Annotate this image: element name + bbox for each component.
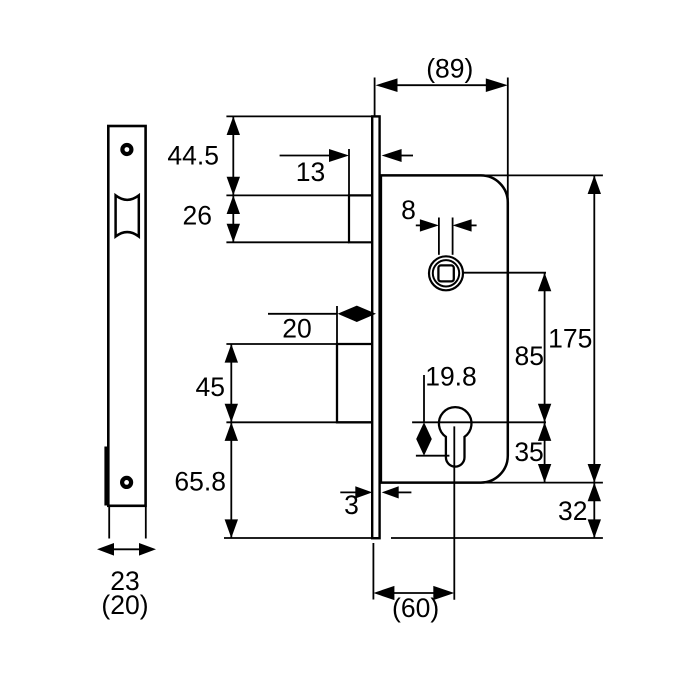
svg-text:44.5: 44.5 [167, 141, 219, 171]
dimension 8 arrows [416, 224, 421, 226]
screw hole top [122, 145, 131, 154]
svg-text:(89): (89) [426, 54, 473, 84]
dimension 20 [268, 313, 337, 315]
latch front extension line [348, 149, 350, 196]
dimension 13 [280, 155, 332, 157]
dimension 32 [593, 483, 595, 538]
svg-text:45: 45 [196, 372, 225, 402]
svg-text:35: 35 [514, 437, 543, 467]
svg-text:19.8: 19.8 [425, 362, 477, 392]
cylinder vertical centerline [453, 426, 455, 599]
body bottom extension line [482, 482, 603, 484]
spindle hub inner circle [433, 260, 459, 286]
deadbolt [337, 344, 372, 422]
dimension 19.8 diamond [416, 422, 432, 455]
dimension 65.8 [230, 422, 232, 538]
extension line latch bottom [226, 241, 349, 243]
svg-text:85: 85 [515, 341, 544, 371]
dimension 3 [340, 491, 357, 493]
svg-text:13: 13 [296, 157, 325, 187]
strike plate inner edge line [104, 447, 108, 506]
svg-text:8: 8 [401, 195, 416, 225]
extension line latch top [226, 194, 349, 196]
svg-text:65.8: 65.8 [174, 467, 226, 497]
dimension 45 [230, 344, 232, 422]
dimension 19.8 line [423, 375, 425, 422]
hub centerline [463, 272, 546, 274]
dimension 175 [593, 175, 595, 482]
svg-text:20: 20 [282, 314, 311, 344]
cylinder horizontal centerline [412, 421, 546, 423]
dimension 23 arrow [100, 548, 153, 550]
dimension (60) [393, 592, 435, 594]
svg-text:175: 175 [548, 324, 592, 354]
euro cylinder hole [439, 407, 472, 466]
lock body [381, 175, 508, 482]
latch bolt [349, 195, 372, 242]
strike plate extension line right [145, 507, 147, 539]
extension line deadbolt bottom [226, 421, 337, 423]
dimension 44.5 [232, 116, 234, 195]
svg-text:26: 26 [183, 201, 212, 231]
extension line faceplate top left [226, 115, 372, 117]
strike plate extension line left [108, 507, 110, 539]
dimension 35 [544, 422, 546, 482]
dimension 26 [232, 195, 234, 242]
strike plate outline [108, 126, 145, 506]
latch cutout [116, 195, 139, 236]
svg-text:32: 32 [558, 496, 587, 526]
svg-text:(60): (60) [392, 593, 439, 623]
faceplate [372, 116, 379, 538]
svg-text:(20): (20) [101, 590, 148, 620]
body top extension line [482, 174, 603, 176]
svg-text:3: 3 [344, 490, 359, 520]
spindle hub outer circle [429, 256, 463, 290]
bottom extension line y537 [224, 537, 371, 539]
cylinder bottom line [416, 455, 450, 457]
dimension (89) arrows [394, 84, 489, 86]
dimension 85 [544, 273, 546, 423]
faceplate bottom extension to (60) left [372, 543, 374, 600]
dimension (89) extension right [507, 78, 509, 206]
extension line deadbolt top [226, 343, 337, 345]
spindle square hole [438, 265, 453, 281]
screw hole bottom [122, 478, 131, 487]
deadbolt front extension line [336, 306, 338, 344]
dimension 8 extension lines [438, 218, 440, 255]
dimension (89) extension left [374, 78, 376, 117]
